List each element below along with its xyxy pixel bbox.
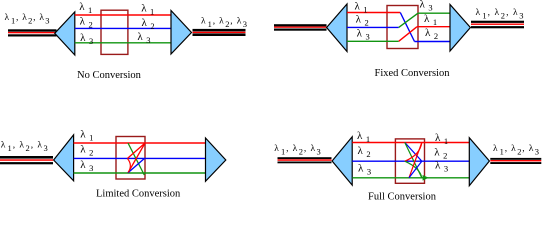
conversion blue diagonal lambda3 to lambda2 panel3 [128, 158, 145, 172]
svg-text:λ3: λ3 [358, 163, 371, 177]
label output fiber 4 [493, 144, 539, 157]
svg-text:Fixed Conversion: Fixed Conversion [375, 68, 451, 79]
svg-text:λ1, λ2, λ3: λ1, λ2, λ3 [5, 13, 50, 26]
wire lambda1 red panel4 [352, 142, 469, 144]
svg-text:No Conversion: No Conversion [77, 70, 142, 81]
svg-text:λ1, λ2, λ3: λ1, λ2, λ3 [476, 8, 524, 21]
caption panel 4 [368, 192, 437, 203]
converter box 3 [116, 137, 145, 180]
svg-text:λ1, λ2, λ3: λ1, λ2, λ3 [201, 17, 247, 30]
label lambda2 panel3 [80, 144, 93, 158]
wire lambda2 blue in panel2 [347, 26, 399, 28]
label lambda1 left panel1 [79, 1, 92, 15]
demux triangle 4 left [332, 137, 352, 185]
wire conversion blue to green diagonal panel2 [399, 13, 418, 27]
svg-text:λ2: λ2 [80, 16, 93, 30]
label lambda3 left panel1 [80, 32, 93, 46]
wire lambda2 blue panel3 [74, 157, 206, 159]
conversion red diagonal lambda2 to lambda1 panel3 [128, 144, 145, 159]
label input fiber 1 : lambda1, lambda2, lambda3 [5, 13, 50, 26]
conversion green diagonal lambda1 to lambda3 panel4 [405, 143, 422, 178]
demux triangle 1 left [55, 12, 75, 55]
wire lambda3 green panel1 [75, 42, 171, 44]
conversion red diagonal lambda3 to lambda1 panel3 [128, 144, 145, 173]
svg-text:λ1, λ2, λ3: λ1, λ2, λ3 [1, 141, 48, 154]
output fiber 4 [490, 158, 541, 164]
input fiber 4 [278, 157, 332, 163]
label lambda3 right panel1 [137, 31, 150, 45]
caption panel 1 [77, 70, 142, 81]
wire conversion green to red diagonal panel2 [399, 27, 417, 42]
label lambda2 right panel1 [142, 17, 155, 31]
wire lambda2 blue out bottom panel2 [415, 41, 451, 43]
input fiber 1 [8, 29, 57, 36]
label lambda2 left panel2 [356, 14, 369, 28]
svg-text:λ1: λ1 [79, 1, 92, 15]
svg-text:λ1: λ1 [435, 132, 448, 146]
conversion red curved wire lambda2 region panel3 [128, 159, 131, 173]
svg-text:λ2: λ2 [142, 17, 155, 31]
wire lambda1 red in panel2 [347, 12, 400, 14]
label lambda2 right panel2 [425, 27, 438, 41]
wire lambda1 red panel1 [75, 14, 171, 16]
label lambda3 right panel2 [420, 0, 433, 13]
svg-text:λ3: λ3 [80, 32, 93, 46]
conversion green diagonal lambda1 to lambda3 panel3 [128, 143, 144, 175]
svg-text:λ1, λ2, λ3: λ1, λ2, λ3 [493, 144, 539, 157]
wire lambda3 green panel3 [74, 172, 206, 174]
svg-text:λ1: λ1 [80, 128, 93, 142]
mux triangle 3 right [206, 138, 226, 181]
demux triangle 2 left [327, 4, 347, 52]
svg-text:Full Conversion: Full Conversion [368, 192, 437, 201]
label output fiber 2 [476, 8, 524, 21]
wire lambda1 red out middle panel2 [417, 26, 450, 28]
mux triangle 1 right [171, 11, 192, 55]
label lambda1 left panel2 [355, 1, 368, 15]
output fiber 2 [471, 21, 524, 29]
label lambda2 left panel4 [358, 145, 371, 159]
svg-text:λ1, λ2, λ3: λ1, λ2, λ3 [274, 144, 321, 157]
output fiber 1 [193, 29, 246, 36]
wire lambda3 green out top panel2 [418, 12, 450, 14]
svg-text:λ2: λ2 [358, 145, 371, 159]
svg-text:λ2: λ2 [356, 14, 369, 28]
wire lambda3 green panel4 [352, 177, 469, 179]
caption panel 2 [375, 68, 451, 79]
label lambda1 right panel4 [435, 132, 448, 146]
converter box 4 [395, 139, 424, 183]
svg-text:λ3: λ3 [420, 0, 433, 13]
input fiber 3 [0, 156, 53, 164]
label lambda1 right panel2 [424, 13, 437, 27]
label lambda1 left panel4 [357, 130, 370, 144]
label lambda2 left panel1 [80, 16, 93, 30]
converter box 1 [101, 10, 128, 54]
input fiber 2 [274, 24, 327, 31]
svg-text:λ2: λ2 [80, 144, 93, 158]
conversion blue diagonal lambda1 to lambda2 panel4 [405, 143, 422, 162]
label lambda1 panel3 [80, 128, 93, 142]
green arrowhead on lambda3 wire panel4 [423, 175, 429, 181]
svg-text:λ1: λ1 [424, 13, 437, 27]
label input fiber 4 [274, 144, 321, 157]
svg-text:λ2: λ2 [425, 27, 438, 41]
wire lambda1 red panel3 [74, 142, 206, 144]
label lambda3 left panel2 [357, 28, 370, 42]
svg-text:λ2: λ2 [434, 147, 447, 161]
label output fiber 1 [201, 17, 247, 30]
label lambda3 right panel4 [435, 160, 448, 174]
mux triangle 4 right [469, 138, 489, 186]
label lambda3 panel3 [80, 159, 93, 173]
conversion green diagonal lambda2 to lambda3 panel4 [405, 161, 422, 178]
wire lambda2 blue panel1 [75, 27, 171, 29]
svg-text:λ3: λ3 [80, 159, 93, 173]
label lambda3 left panel4 [358, 163, 371, 177]
conversion red diagonal lambda3 to lambda1 panel4 [409, 143, 422, 178]
wire conversion red to blue diagonal panel2 [400, 13, 414, 42]
label lambda2 right panel4 [434, 147, 447, 161]
wire lambda3 green in panel2 [347, 40, 399, 42]
conversion red diagonal lambda2 to lambda1 panel4 [405, 143, 422, 162]
label input fiber 3 [1, 141, 48, 154]
converter box 2 [387, 6, 418, 49]
svg-text:λ3: λ3 [357, 28, 370, 42]
mux triangle 2 right [450, 5, 470, 52]
wire lambda2 blue panel4 [352, 160, 469, 162]
caption panel 3 [96, 189, 181, 200]
demux triangle 3 left [54, 135, 74, 181]
label lambda1 right panel1 [141, 3, 154, 17]
conversion blue diagonal lambda3 to lambda2 panel4 [409, 161, 422, 178]
svg-text:Limited Conversion: Limited Conversion [96, 189, 181, 200]
